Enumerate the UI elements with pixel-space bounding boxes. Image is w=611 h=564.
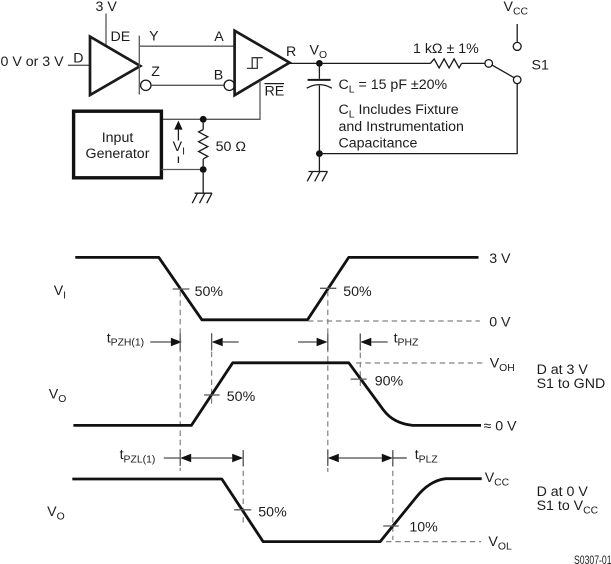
switch S1 arm (492, 65, 514, 77)
tick VI fall 50% (173, 288, 190, 290)
svg-text:0 V: 0 V (489, 315, 511, 331)
svg-text:RE: RE (265, 84, 285, 100)
waveform VO1 (73, 363, 481, 426)
wire VCC (516, 24, 518, 42)
inversion bubble B (224, 80, 234, 90)
wire generator bottom (162, 169, 204, 171)
svg-text:R: R (286, 44, 296, 60)
switch throw VCC (513, 42, 521, 50)
svg-text:Capacitance: Capacitance (339, 135, 418, 151)
hysteresis symbol (247, 58, 263, 69)
svg-text:A: A (214, 29, 224, 45)
wire D input (68, 64, 90, 66)
svg-text:50%: 50% (227, 389, 256, 405)
resistor R1 1k (430, 59, 461, 68)
svg-text:S1 to GND: S1 to GND (537, 376, 606, 392)
dashed line VO1 rise 50 (211, 333, 213, 407)
svg-text:tPZH(1): tPZH(1) (107, 330, 144, 348)
dashed line VI rise (327, 291, 329, 472)
dashed line VI fall (179, 291, 181, 471)
svg-text:90%: 90% (375, 373, 404, 389)
wire Y to A (139, 45, 234, 47)
input generator box (74, 111, 162, 178)
dashed 0V level (308, 320, 480, 322)
leader tPZL (164, 457, 180, 459)
svg-text:CL = 15 pF ±20%: CL = 15 pF ±20% (339, 77, 448, 96)
svg-text:S0307-01: S0307-01 (574, 553, 611, 564)
switch throw GND (513, 76, 521, 84)
svg-text:≈ 0 V: ≈ 0 V (484, 419, 518, 435)
svg-text:S1: S1 (532, 58, 549, 74)
svg-text:VO: VO (49, 386, 67, 405)
svg-text:VO: VO (47, 504, 65, 523)
arrow tPHZ right (360, 334, 387, 351)
svg-text:3 V: 3 V (96, 0, 118, 15)
svg-text:and Instrumentation: and Instrumentation (339, 119, 464, 135)
tick VO2 50% (234, 509, 251, 511)
svg-text:DE: DE (111, 29, 131, 45)
junction VO (316, 60, 323, 67)
wire R output (290, 62, 431, 64)
tick VO2 10% (383, 525, 399, 527)
arrow tPHZ left (298, 334, 328, 351)
dashed line VO2 10 (392, 452, 394, 540)
pin label RE with overline (265, 84, 285, 100)
svg-text:50%: 50% (343, 284, 372, 300)
svg-text:VI: VI (54, 283, 66, 302)
driver U1 (90, 37, 140, 95)
svg-text:VOH: VOH (490, 355, 515, 374)
svg-text:B: B (214, 68, 223, 84)
svg-text:VCC: VCC (485, 470, 510, 489)
svg-text:VI: VI (173, 139, 185, 158)
svg-text:D: D (73, 51, 83, 67)
wire DE supply (105, 14, 107, 46)
dashed VOL level (386, 541, 481, 543)
svg-text:S1 to VCC: S1 to VCC (537, 498, 599, 517)
driver output bar (138, 36, 140, 95)
junction input top (200, 116, 207, 123)
dashed line VO2 fall 50 (242, 452, 244, 523)
receiver U2 (235, 31, 290, 96)
svg-text:Input: Input (102, 130, 134, 146)
tick VI rise 50% (320, 287, 336, 289)
wire ground rail (319, 84, 517, 154)
svg-text:10%: 10% (409, 520, 438, 536)
svg-text:Generator: Generator (86, 146, 150, 162)
junction ground rail (316, 150, 323, 157)
svg-text:VOL: VOL (488, 534, 512, 553)
svg-text:tPHZ: tPHZ (394, 330, 419, 348)
arrow tPZL (180, 450, 243, 466)
svg-text:0 V or 3 V: 0 V or 3 V (1, 54, 65, 70)
junction input bottom (200, 166, 207, 173)
svg-text:CL Includes Fixture: CL Includes Fixture (339, 102, 459, 121)
wire Z to B (151, 84, 224, 86)
dashed VOH level (356, 362, 483, 364)
dashed line VO1 90 (359, 334, 361, 390)
VI arrow (174, 121, 182, 163)
arrow tPZH right (212, 334, 239, 351)
input generator text (86, 130, 150, 162)
tick VO1 50% (204, 394, 220, 396)
svg-text:Z: Z (151, 64, 160, 80)
wire RE (162, 81, 261, 120)
waveform VI (75, 257, 478, 319)
resistor R2 50ohm (199, 123, 208, 166)
svg-text:50 Ω: 50 Ω (216, 139, 246, 155)
svg-text:VCC: VCC (504, 0, 529, 18)
svg-text:tPZL(1): tPZL(1) (120, 447, 156, 465)
svg-text:tPLZ: tPLZ (415, 447, 439, 465)
svg-text:Y: Y (149, 29, 159, 45)
inversion bubble Z (141, 80, 151, 90)
ground G2 (192, 173, 212, 203)
ground G1 (307, 154, 327, 182)
svg-text:50%: 50% (195, 284, 224, 300)
arrow tPZH left (150, 334, 182, 351)
svg-text:3 V: 3 V (489, 251, 511, 267)
arrow tPLZ (328, 450, 393, 466)
leader tPLZ (393, 457, 407, 459)
switch S1 pole (485, 60, 493, 68)
wire resistor to switch (462, 62, 485, 64)
svg-text:1 kΩ ± 1%: 1 kΩ ± 1% (413, 41, 479, 57)
svg-text:VO: VO (310, 43, 328, 62)
capacitor CL (307, 63, 332, 153)
svg-text:50%: 50% (258, 505, 287, 521)
tick VO1 90% (351, 378, 367, 380)
waveform VO2 (72, 479, 481, 542)
